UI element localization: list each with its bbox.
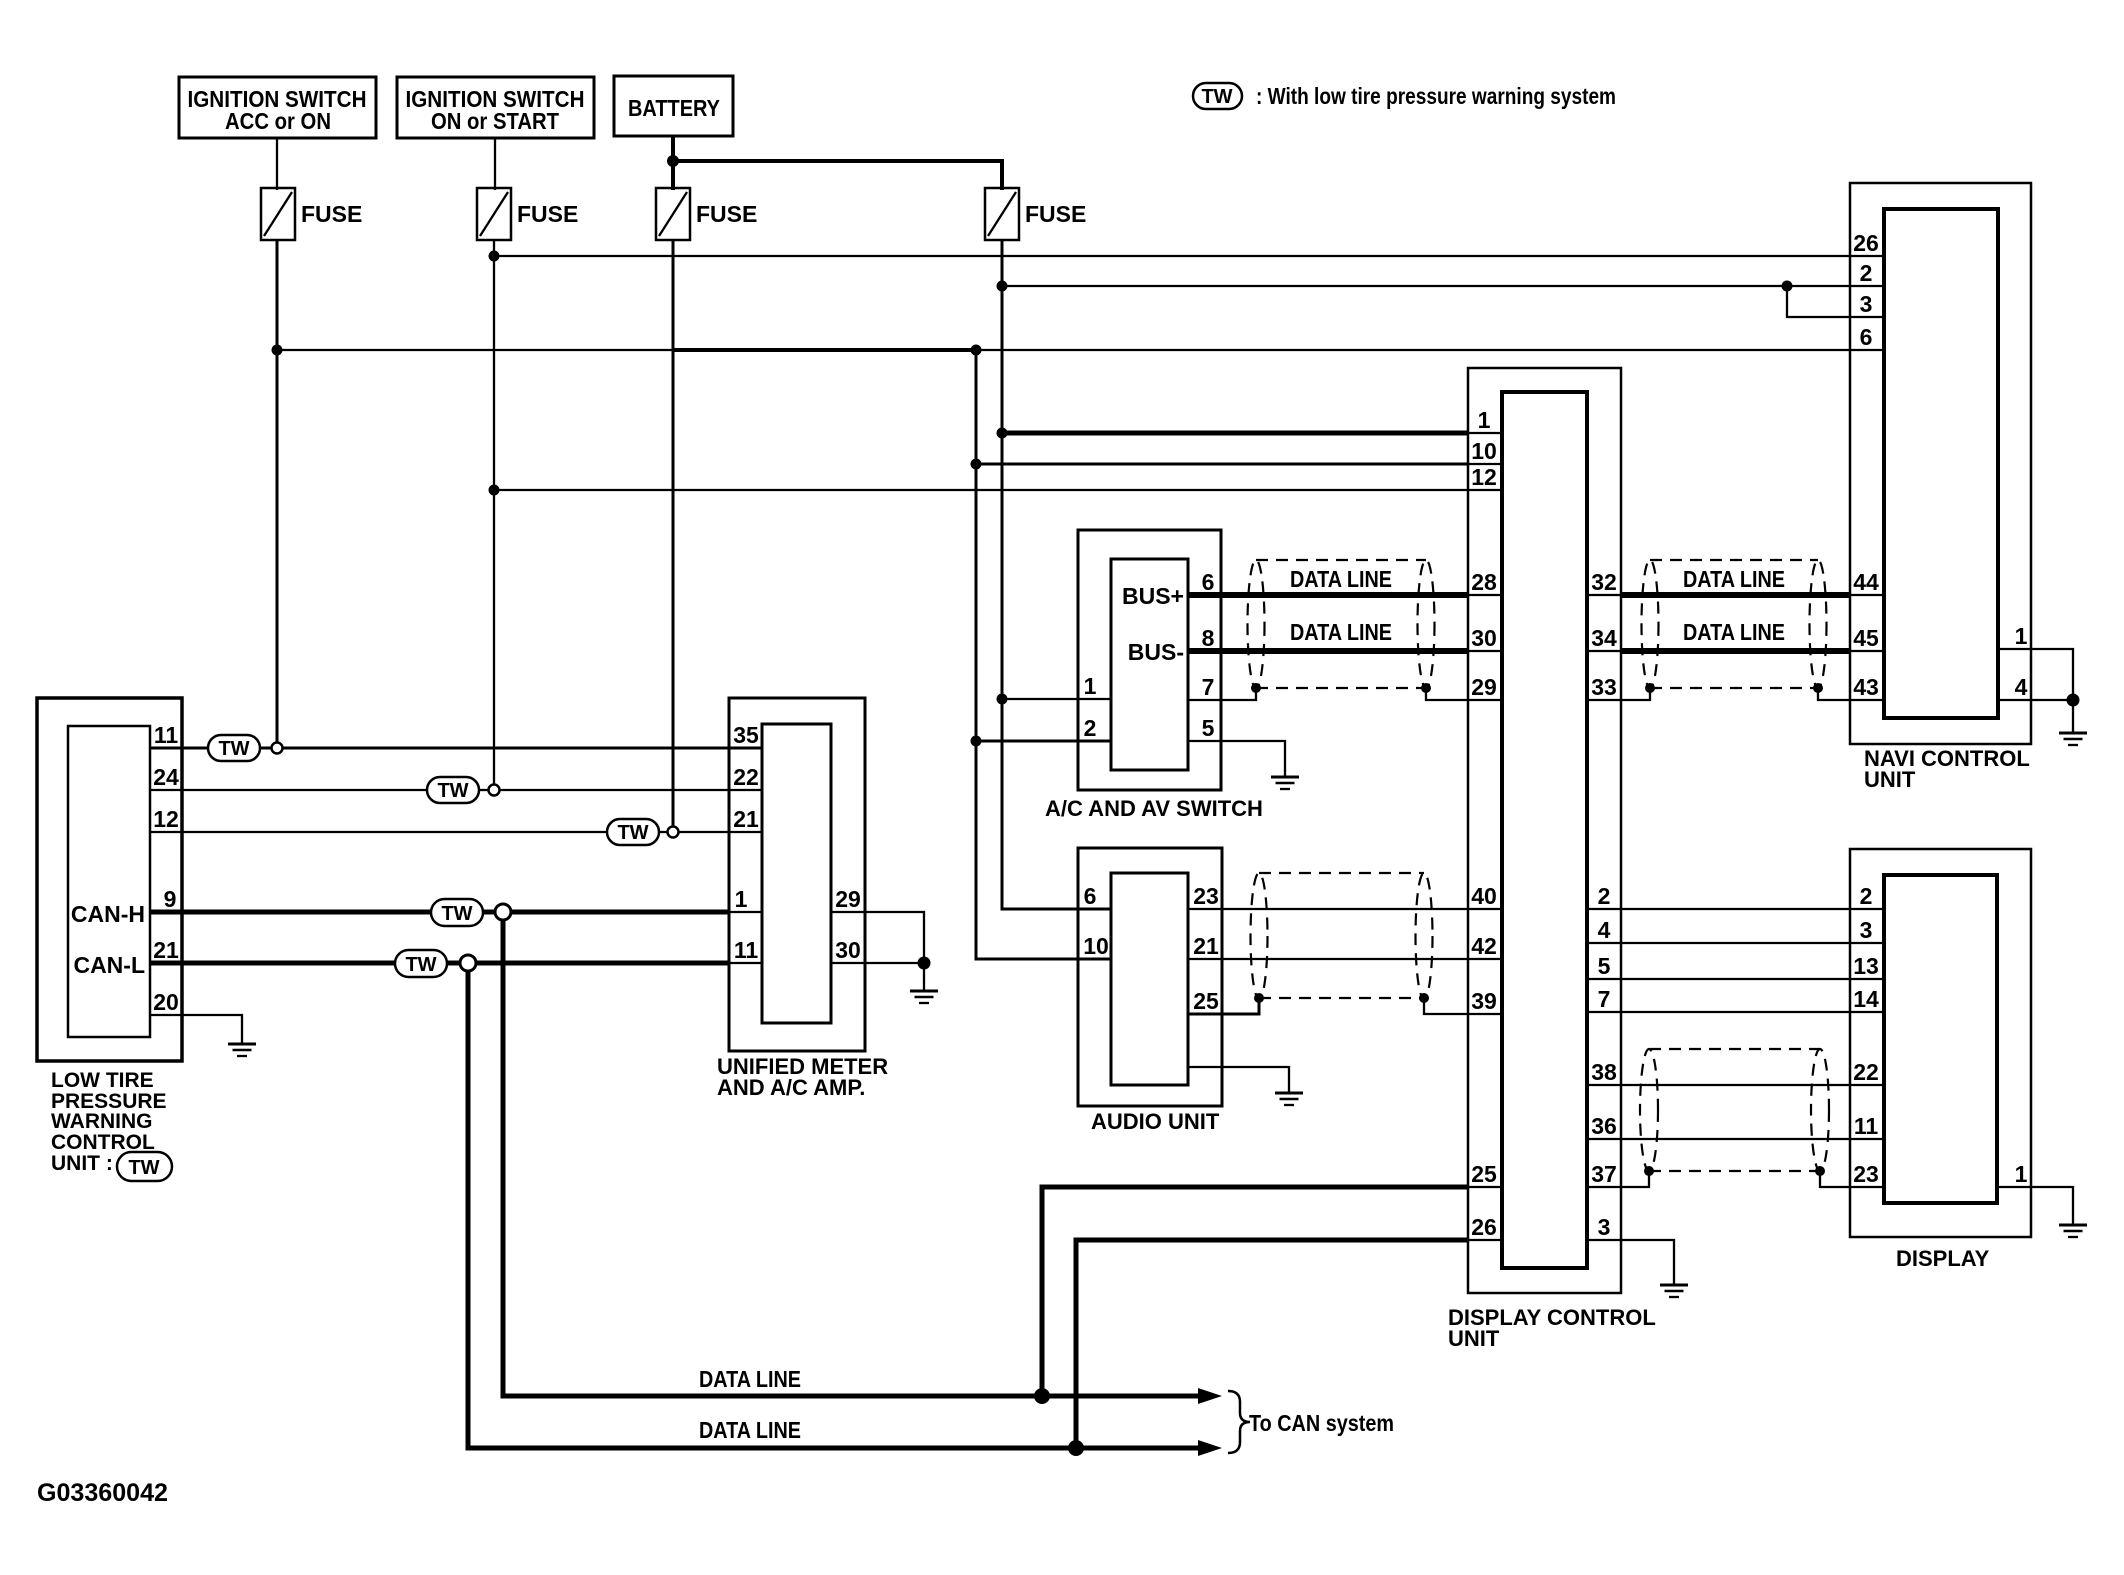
svg-text:DATA LINE: DATA LINE [1290, 566, 1392, 592]
shield ellipse left (navi data cable) [1642, 560, 1659, 688]
svg-text:32: 32 [1591, 569, 1617, 595]
shield top dashed line (display cable) [1649, 1048, 1820, 1050]
stub: DCU pin 25 cell [1468, 1186, 1502, 1188]
arrowhead: CAN-L data line to CAN system [1198, 1440, 1222, 1456]
svg-text:33: 33 [1591, 674, 1617, 700]
svg-text:WARNING: WARNING [51, 1110, 153, 1133]
UNIFIED METER AND A/C AMP outer box [729, 698, 865, 1051]
svg-text:29: 29 [835, 886, 861, 912]
wire: LTPW pin 20 to ground [150, 1015, 242, 1043]
wire: DCU pin 4 to DISPLAY pin 3 [1587, 942, 1884, 944]
svg-text:2: 2 [1598, 883, 1611, 909]
svg-text:9: 9 [164, 886, 177, 912]
svg-text:BUS+: BUS+ [1122, 583, 1184, 609]
shield top dashed line (audio cable) [1259, 872, 1424, 874]
DISPLAY CONTROL UNIT connector inner box [1502, 392, 1587, 1268]
wire: AUDIO pin 25 to shield drain [1188, 998, 1259, 1014]
wire: fuse2 to NAVI pin 26 [494, 255, 1884, 257]
svg-text:TW: TW [1201, 86, 1232, 108]
ground: DCU pin 3 [1660, 1285, 1688, 1297]
connector circle CAN-L junction [460, 955, 476, 971]
TW oval in LTPW label [117, 1152, 172, 1181]
svg-text:20: 20 [153, 989, 179, 1015]
svg-text:AND A/C AMP.: AND A/C AMP. [717, 1075, 865, 1100]
junction: fuse4 rail to NAVI pin 2 wire [997, 281, 1008, 292]
svg-text:7: 7 [1598, 986, 1611, 1012]
svg-text:7: 7 [1202, 674, 1215, 700]
stub: DCU pin 32 cell [1587, 594, 1621, 596]
connector circle on pin 11 wire [272, 743, 283, 754]
wire: DCU pin 33 to shield drain [1587, 688, 1650, 700]
wire: TW oval to CAN-L junction circle [447, 961, 460, 966]
svg-text:DATA LINE: DATA LINE [699, 1366, 801, 1392]
wire: rail to A/C pin 2 [976, 740, 1111, 743]
NAVI CONTROL UNIT connector inner box [1884, 209, 1998, 718]
wire: DCU pin 37 to shield drain [1587, 1171, 1649, 1187]
wire: DCU pin 2 to DISPLAY pin 2 [1587, 908, 1884, 910]
shield ellipse left (display cable) [1640, 1049, 1658, 1171]
svg-text:28: 28 [1471, 569, 1497, 595]
svg-text:25: 25 [1471, 1161, 1497, 1187]
svg-text:10: 10 [1083, 933, 1109, 959]
svg-text:36: 36 [1591, 1113, 1617, 1139]
wire: accessory rail down to AUDIO pin 10 [976, 350, 1111, 959]
junction: shield drain right (display cable) [1815, 1166, 1825, 1176]
TW oval on pin 24 wire [427, 777, 479, 803]
junction: DCU pin 25 branch on CAN-H data line [1034, 1388, 1050, 1404]
svg-text:11: 11 [154, 722, 179, 748]
wire: fuse4 to DCU pin 1 (thick) [1002, 431, 1468, 436]
svg-text:1: 1 [1084, 673, 1097, 699]
ground: AUDIO UNIT [1275, 1093, 1303, 1105]
wire: battery feed down to fuse 3 [671, 136, 675, 190]
wire: LTPW pin 11 to TW option [150, 747, 207, 750]
svg-text:14: 14 [1853, 986, 1879, 1012]
wire: fuse 4 output rail down to AUDIO pin 6 [1002, 240, 1111, 909]
svg-text:FUSE: FUSE [301, 201, 362, 227]
AUDIO UNIT outer box [1078, 848, 1222, 1106]
wire: connector to UNIFIED METER pin 35 [283, 747, 762, 750]
svg-text:ON or START: ON or START [431, 108, 559, 134]
wire: DCU pin 38 to DISPLAY pin 22 [1587, 1084, 1884, 1086]
shield drain dashed link (navi data cable) [1650, 687, 1818, 689]
NAVI CONTROL UNIT outer box [1850, 183, 2031, 744]
stub: NAVI pin 44 cell [1850, 594, 1884, 596]
UNIFIED METER pin numbers [733, 722, 861, 963]
stub: DCU pin 30 cell [1468, 650, 1502, 652]
svg-text:UNIT :: UNIT : [51, 1152, 113, 1175]
svg-text:30: 30 [1471, 625, 1497, 651]
power source box: IGNITION SWITCH ACC or ON [179, 77, 376, 138]
junction: fuse4 rail to A/C switch pin 1 wire [997, 694, 1008, 705]
shield ellipse right (navi data cable) [1810, 560, 1827, 688]
svg-text:2: 2 [1860, 883, 1873, 909]
svg-text:3: 3 [1860, 291, 1873, 317]
svg-text:CONTROL: CONTROL [51, 1131, 155, 1154]
wire: A/C pin 7 to shield drain [1188, 688, 1256, 700]
wire: LTPW CAN-H pin 9 to TW option (thick) [150, 910, 431, 915]
shield ellipse right (display cable) [1811, 1049, 1829, 1171]
svg-text:2: 2 [1860, 260, 1873, 286]
shield drain dashed link (display cable) [1649, 1170, 1820, 1172]
junction: battery branch to fuse 4 [667, 155, 679, 167]
svg-text:8: 8 [1202, 625, 1215, 651]
stub: UNIFIED METER pin 1 cell [729, 911, 762, 913]
svg-text:FUSE: FUSE [696, 201, 757, 227]
junction: rail start on NAVI pin 6 wire [971, 345, 982, 356]
svg-text:21: 21 [153, 937, 179, 963]
svg-text:TW: TW [441, 903, 472, 925]
ground: DISPLAY pin 1 [2059, 1225, 2087, 1237]
wire: DCU pin 25 to CAN-H data line (thick) [1042, 1187, 1468, 1396]
wire: TW oval to CAN-H junction circle [483, 910, 495, 915]
junction: fuse4 rail to DCU pin 1 wire [997, 428, 1008, 439]
svg-text:21: 21 [1193, 933, 1219, 959]
wire: DCU pin 36 to DISPLAY pin 11 [1587, 1138, 1884, 1140]
wire: fuse4 rail to A/C pin 1 [1002, 698, 1111, 700]
junction: pins 29/30 common ground [918, 957, 931, 970]
UNIFIED METER unit label [717, 1054, 888, 1100]
svg-text:DATA LINE: DATA LINE [1683, 619, 1785, 645]
svg-text:24: 24 [153, 764, 179, 790]
svg-text:39: 39 [1471, 988, 1497, 1014]
svg-text:A/C AND AV SWITCH: A/C AND AV SWITCH [1045, 796, 1263, 821]
svg-text:38: 38 [1591, 1059, 1617, 1085]
svg-text:11: 11 [734, 937, 759, 963]
DCU right pin numbers [1591, 569, 1617, 1240]
svg-text:FUSE: FUSE [517, 201, 578, 227]
svg-text:1: 1 [2015, 623, 2028, 649]
wire: junction down to ground [2072, 700, 2074, 732]
shield drain dashed link (A/C data cable) [1256, 687, 1426, 689]
svg-text:5: 5 [1598, 953, 1611, 979]
stub: DCU pin 1 cell [1468, 432, 1502, 434]
NAVI left pin numbers [1853, 230, 1879, 700]
junction: shield drain right (audio cable) [1419, 993, 1429, 1003]
svg-text:AUDIO UNIT: AUDIO UNIT [1091, 1109, 1220, 1134]
fuse F4 [985, 188, 1086, 240]
svg-text:25: 25 [1193, 988, 1219, 1014]
fuse F3 [656, 188, 757, 240]
svg-text:43: 43 [1853, 674, 1879, 700]
junction: shield drain left (A/C data cable) [1251, 683, 1261, 693]
svg-text:1: 1 [2015, 1161, 2028, 1187]
svg-text:42: 42 [1471, 933, 1497, 959]
svg-text:26: 26 [1471, 1214, 1497, 1240]
svg-text:BUS-: BUS- [1128, 639, 1184, 665]
svg-text:37: 37 [1591, 1161, 1617, 1187]
shield ellipse left (A/C data cable) [1248, 560, 1265, 688]
svg-text:6: 6 [1860, 324, 1873, 350]
wire: TW oval to connector circle pin 24 [479, 789, 488, 791]
junction: rail to DCU pin 10 wire [971, 459, 982, 470]
wire: NAVI pin 1 to ground junction [1998, 649, 2073, 700]
stub: UNIFIED METER pin 11 cell [729, 962, 762, 964]
wire: LTPW CAN-L pin 21 to TW option (thick) [150, 961, 395, 966]
junction: shield drain right (navi data cable) [1813, 683, 1823, 693]
svg-text:5: 5 [1202, 715, 1215, 741]
TW oval on CAN-H wire [431, 899, 483, 926]
wire: CAN-L bus down to bottom DATA LINE run [468, 971, 1210, 1448]
svg-text:11: 11 [1854, 1113, 1879, 1139]
wire: connector to UNIFIED METER pin 22 [500, 789, 762, 791]
svg-text:26: 26 [1853, 230, 1879, 256]
svg-text:3: 3 [1860, 917, 1873, 943]
wire: CAN-H bus down to lower-left DATA LINE run [503, 920, 1210, 1396]
NAVI CONTROL UNIT label [1864, 746, 2030, 792]
svg-text:45: 45 [1853, 625, 1879, 651]
svg-text:10: 10 [1471, 438, 1497, 464]
DISPLAY left pin numbers [1853, 883, 1879, 1187]
shield ellipse right (audio cable) [1416, 873, 1433, 999]
wire: junction down to ground [923, 963, 925, 990]
shield ellipse left (audio cable) [1251, 873, 1268, 999]
wire: LTPW pin 12 to TW option [150, 831, 607, 833]
shield top dashed line (A/C data cable) [1256, 559, 1426, 561]
wire: fuse 3 output down to TW circle (pin 12 line) [672, 240, 675, 828]
junction: shield drain left (navi data cable) [1645, 683, 1655, 693]
connector circle on pin 24 wire [489, 785, 500, 796]
svg-text:6: 6 [1202, 569, 1215, 595]
wire: AUDIO ground pin to ground [1188, 1067, 1289, 1092]
fuse F1 [261, 188, 362, 240]
junction: shield drain right (A/C data cable) [1421, 683, 1431, 693]
arrowhead: CAN-H data line to CAN system [1198, 1388, 1222, 1404]
wire: rail to DCU pin 10 [976, 463, 1468, 466]
wire: heavier inked span of NAVI pin 6 feed [674, 348, 975, 352]
wire: ignition ACC feed down to fuse 1 [276, 138, 278, 190]
wire: fuse 1 output down to junction and TW circle (pin 11 line) [276, 240, 279, 744]
svg-text:DATA LINE: DATA LINE [699, 1417, 801, 1443]
svg-text:FUSE: FUSE [1025, 201, 1086, 227]
AUDIO UNIT connector inner box [1111, 873, 1188, 1085]
wire: DCU pin 5 to DISPLAY pin 13 [1587, 978, 1884, 980]
svg-text:: With low tire pressure warni: : With low tire pressure warning system [1256, 83, 1616, 109]
wire: fuse1 to NAVI pin 6 [277, 349, 1884, 351]
svg-text:13: 13 [1853, 953, 1879, 979]
wire: shield drain to NAVI pin 43 [1818, 688, 1884, 700]
stub: DCU pin 26 cell [1468, 1239, 1502, 1241]
junction: shield drain left (display cable) [1644, 1166, 1654, 1176]
svg-text:3: 3 [1598, 1214, 1611, 1240]
TW legend oval [1193, 83, 1242, 109]
svg-text:UNIT: UNIT [1448, 1326, 1500, 1351]
fuse F2 [477, 188, 578, 240]
A/C AND AV SWITCH outer box [1078, 530, 1221, 790]
wire: NAVI pin 4 to ground junction [1998, 699, 2073, 701]
svg-text:30: 30 [835, 937, 861, 963]
UNIFIED METER AND A/C AMP connector inner box [762, 724, 831, 1023]
LOW TIRE PRESSURE WARNING CONTROL UNIT connector inner box [68, 726, 150, 1037]
svg-text:TW: TW [617, 822, 648, 844]
junction: rail to A/C switch pin 2 wire [971, 736, 982, 747]
wire: A/C BUS- pin 8 to DCU pin 30 (data line) [1188, 648, 1468, 654]
wire: shield drain to DCU pin 29 [1426, 688, 1502, 700]
wire: DCU pin 26 to CAN-L data line (thick) [1076, 1240, 1468, 1448]
svg-text:23: 23 [1193, 883, 1219, 909]
wire: UNIFIED METER pin 29 to ground junction [831, 912, 924, 961]
svg-text:TW: TW [405, 954, 436, 976]
svg-text:ACC or ON: ACC or ON [225, 108, 331, 134]
wire: fuse 2 output down to TW circle (pin 24 line) [493, 240, 495, 786]
svg-text:LOW TIRE: LOW TIRE [51, 1069, 154, 1092]
wire: fuse2 to DCU pin 12 [494, 489, 1502, 491]
junction: fuse2 line to NAVI pin 26 wire [489, 251, 500, 262]
junction: NAVI pins 1/4 common ground [2067, 694, 2080, 707]
svg-text:22: 22 [1853, 1059, 1879, 1085]
wire: DISPLAY pin 1 to ground [1997, 1187, 2073, 1224]
svg-text:6: 6 [1084, 883, 1097, 909]
shield ellipse right (A/C data cable) [1418, 560, 1435, 688]
junction: shield drain left (audio cable) [1254, 993, 1264, 1003]
svg-text:1: 1 [1478, 407, 1491, 433]
TW oval on CAN-L wire [395, 950, 447, 977]
svg-text:CAN-L: CAN-L [73, 952, 145, 978]
connector circle CAN-H junction [495, 904, 511, 920]
wire: branch down to NAVI pin 3 [1787, 286, 1884, 317]
wire: A/C BUS+ pin 6 to DCU pin 28 (data line) [1188, 592, 1468, 598]
svg-text:29: 29 [1471, 674, 1497, 700]
svg-text:2: 2 [1084, 715, 1097, 741]
svg-text:1: 1 [735, 886, 748, 912]
LTPW pin numbers [153, 722, 179, 1015]
svg-text:12: 12 [153, 806, 179, 832]
LTPW unit label [51, 1069, 167, 1175]
ground: NAVI CONTROL UNIT [2059, 733, 2087, 745]
svg-text:DATA LINE: DATA LINE [1290, 619, 1392, 645]
wire: AUDIO pin 23 to DCU pin 40 [1188, 908, 1502, 910]
NAVI right pin numbers [2015, 623, 2028, 700]
DISPLAY outer box [1850, 849, 2031, 1237]
junction: DCU pin 26 branch on CAN-L data line [1068, 1440, 1084, 1456]
ground: A/C switch pin 5 [1271, 777, 1299, 789]
svg-text:BATTERY: BATTERY [628, 95, 720, 121]
svg-text:35: 35 [733, 722, 759, 748]
wire: DCU pin 3 to ground [1587, 1240, 1674, 1284]
svg-text:TW: TW [437, 780, 468, 802]
stub: NAVI pin 45 cell [1850, 650, 1884, 652]
junction: fuse1 line to NAVI pin 6 wire [272, 345, 283, 356]
ground: LTPW pin 20 [228, 1044, 256, 1056]
power source box: BATTERY [614, 76, 733, 136]
shield drain dashed link (audio cable) [1259, 997, 1424, 999]
wire: DCU pin 32 to NAVI pin 44 (data line) [1621, 592, 1850, 598]
wire: DCU pin 34 to NAVI pin 45 (data line) [1621, 648, 1850, 654]
svg-text:40: 40 [1471, 883, 1497, 909]
A/C switch pin numbers [1084, 569, 1215, 741]
DISPLAY connector inner box [1884, 875, 1997, 1203]
shield top dashed line (navi data cable) [1650, 559, 1818, 561]
junction: fuse2 line to DCU pin 12 wire [489, 485, 500, 496]
svg-text:DATA LINE: DATA LINE [1683, 566, 1785, 592]
svg-text:G03360042: G03360042 [37, 1479, 168, 1507]
svg-text:22: 22 [733, 764, 759, 790]
svg-text:4: 4 [1598, 917, 1611, 943]
wire: TW oval to connector circle pin 12 [659, 831, 667, 833]
wire: AUDIO pin 21 to DCU pin 42 [1188, 958, 1502, 960]
svg-text:12: 12 [1471, 464, 1497, 490]
wire: fuse4 to NAVI pin 2 [1002, 285, 1884, 287]
TW oval on pin 12 wire [607, 819, 659, 845]
wire: TW oval to connector circle pin 11 [260, 747, 271, 750]
svg-text:23: 23 [1853, 1161, 1879, 1187]
brace: To CAN system [1228, 1391, 1250, 1453]
svg-text:UNIT: UNIT [1864, 767, 1916, 792]
LOW TIRE PRESSURE WARNING CONTROL UNIT outer box [37, 698, 182, 1061]
svg-text:DISPLAY: DISPLAY [1896, 1246, 1990, 1271]
AUDIO UNIT pin numbers [1083, 883, 1219, 1014]
stub: DCU pin 28 cell [1468, 594, 1502, 596]
svg-text:To CAN system: To CAN system [1249, 1410, 1394, 1436]
wire: CAN-H circle to UNIFIED METER pin 1 (thick) [511, 910, 729, 915]
DISPLAY CONTROL UNIT label [1448, 1305, 1656, 1351]
wire: A/C pin 5 to ground [1188, 741, 1285, 776]
DCU left pin numbers [1471, 407, 1497, 1240]
wire: DCU pin 7 to DISPLAY pin 14 [1587, 1011, 1884, 1013]
wire: CAN-L circle to UNIFIED METER pin 11 (thick) [476, 961, 729, 966]
svg-text:TW: TW [128, 1157, 159, 1179]
svg-text:44: 44 [1853, 569, 1879, 595]
stub: DCU pin 34 cell [1587, 650, 1621, 652]
wire: shield drain to DISPLAY pin 23 [1820, 1171, 1884, 1187]
wire: ignition ON feed down to fuse 2 [494, 138, 496, 190]
stub: DCU pin 10 cell [1468, 463, 1502, 465]
A/C AND AV SWITCH connector inner box [1111, 559, 1188, 770]
svg-text:TW: TW [218, 738, 249, 760]
DISPLAY CONTROL UNIT outer box [1468, 368, 1621, 1293]
svg-text:4: 4 [2015, 674, 2028, 700]
svg-text:21: 21 [733, 806, 759, 832]
connector circle on pin 12 wire [668, 827, 679, 838]
junction: branch to NAVI pin 3 [1782, 281, 1793, 292]
wire: connector to UNIFIED METER pin 21 [679, 831, 762, 833]
wire: UNIFIED METER pin 30 to ground junction [831, 962, 924, 964]
ground: UNIFIED METER pins 29/30 [910, 991, 938, 1003]
wire: battery branch over to fuse 4 [673, 161, 1002, 190]
power source box: IGNITION SWITCH ON or START [397, 77, 594, 138]
svg-text:CAN-H: CAN-H [71, 901, 145, 927]
wire: LTPW pin 24 to TW option [150, 789, 427, 791]
wire: shield drain to DCU pin 39 [1424, 998, 1502, 1014]
TW oval on pin 11 wire [208, 735, 260, 761]
svg-text:34: 34 [1591, 625, 1617, 651]
